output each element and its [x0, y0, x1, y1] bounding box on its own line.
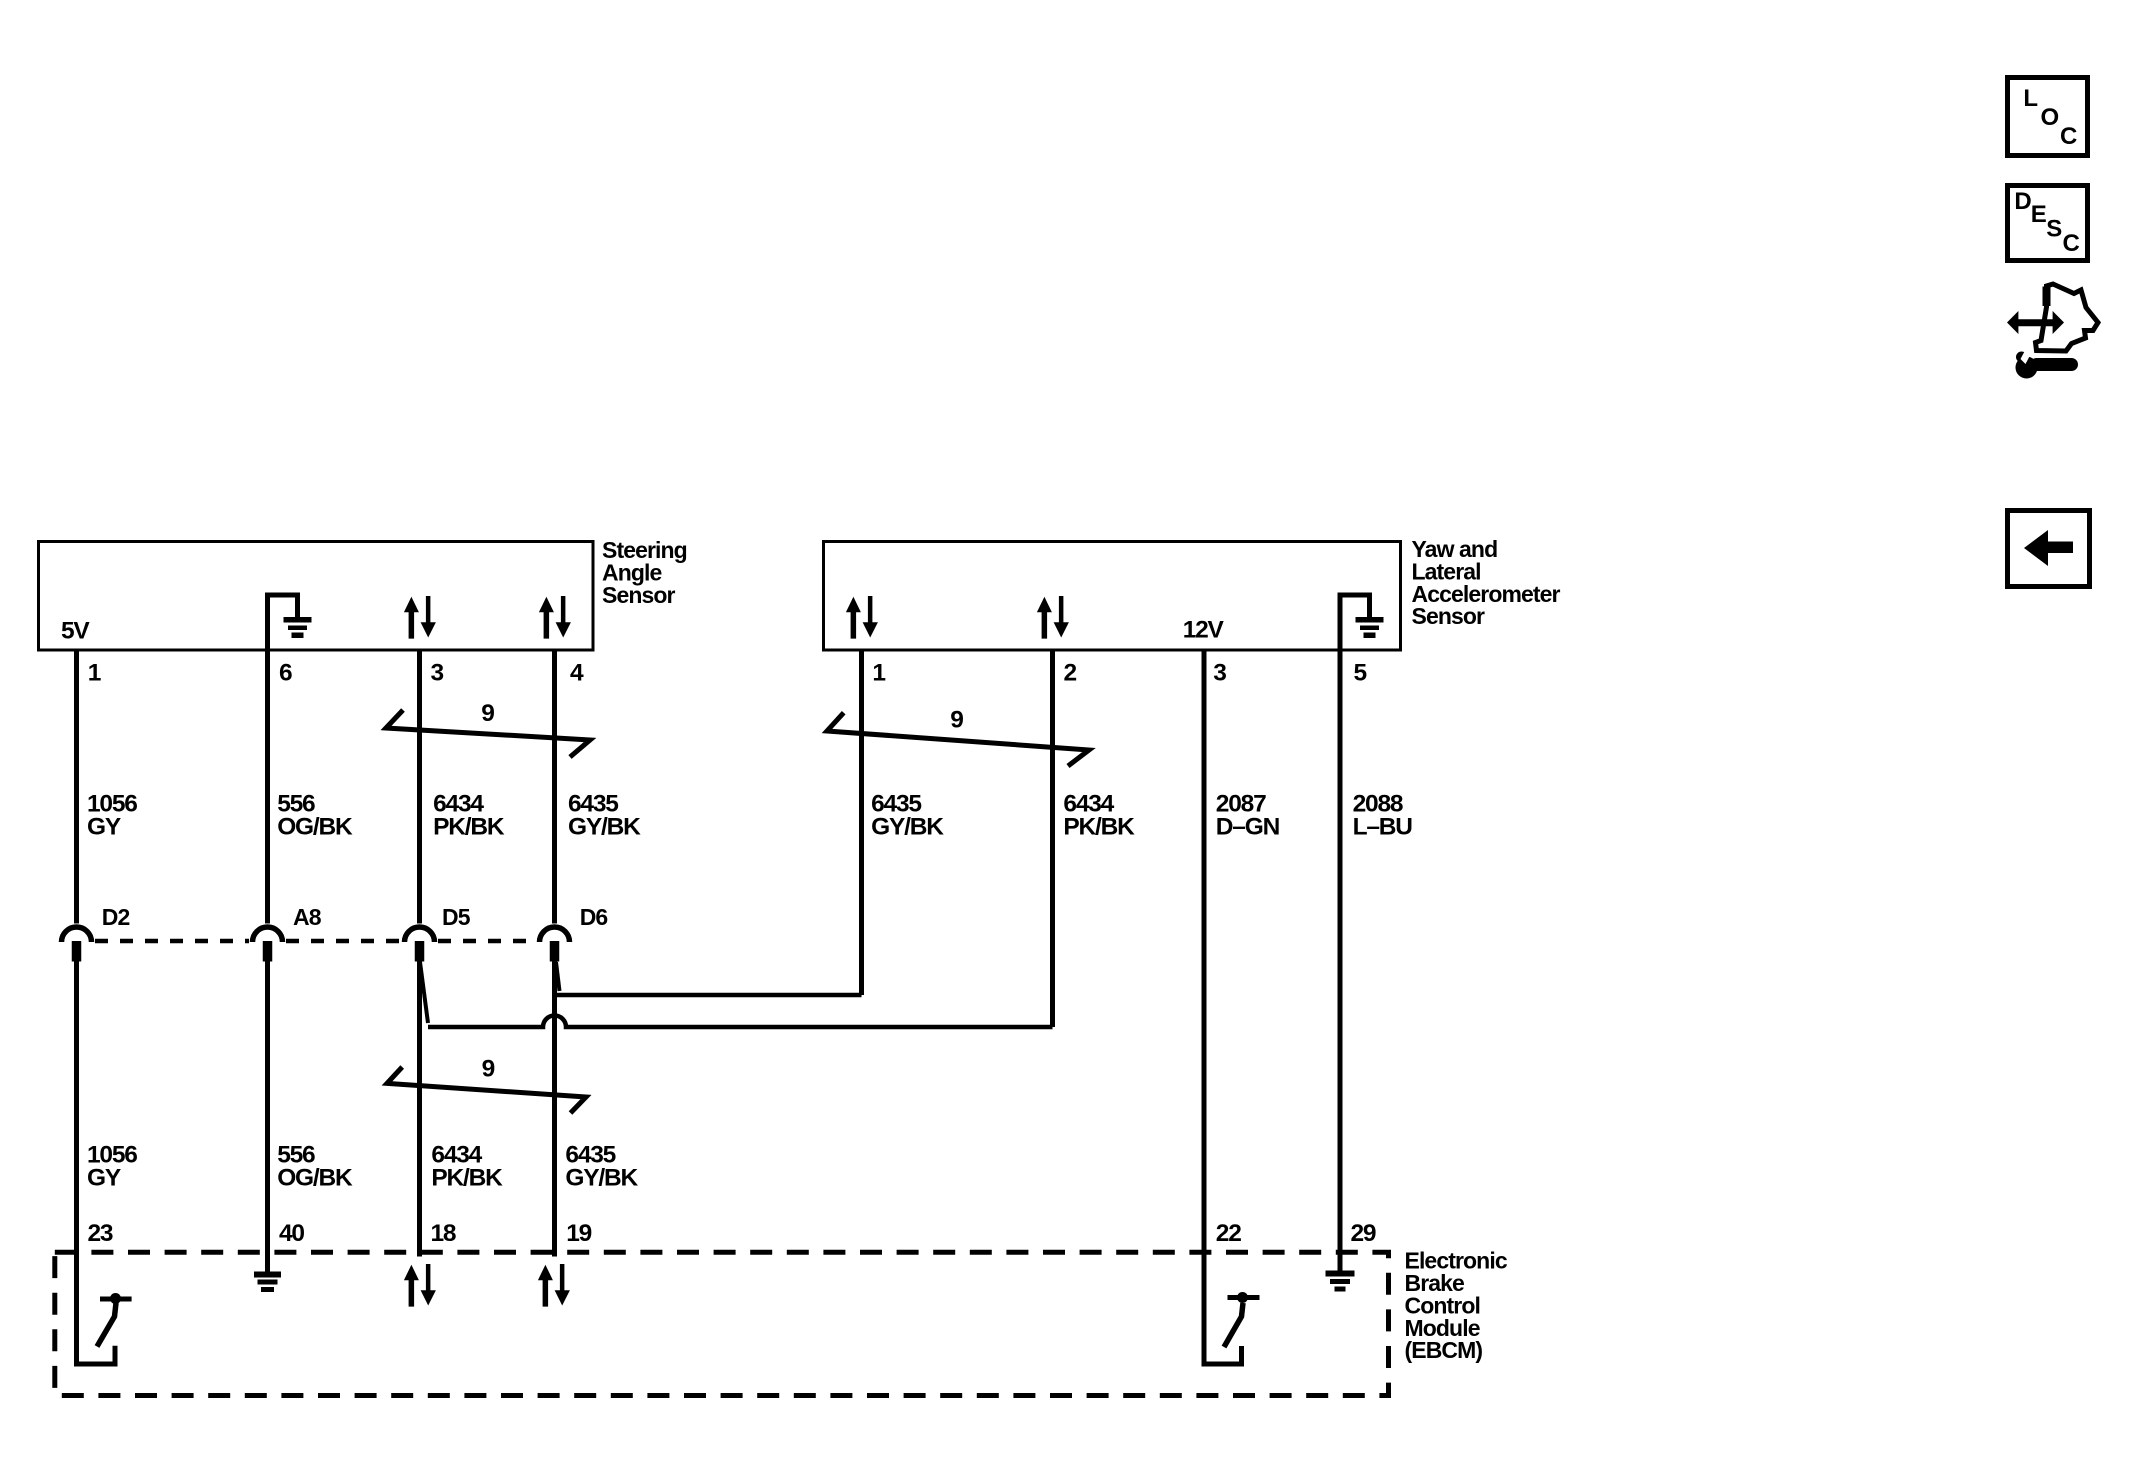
serial data arrows pin 4 steering box [539, 596, 571, 639]
wire 6434 PK/BK yaw pin2 [1050, 650, 1055, 1027]
switch SW1 at EBCM 23 [97, 1293, 132, 1347]
svg-text:D2: D2 [102, 904, 130, 930]
svg-text:40: 40 [279, 1220, 304, 1247]
switch SW2 at EBCM 22 [1224, 1292, 1260, 1347]
label 5V [61, 618, 90, 645]
svg-text:E: E [2031, 201, 2047, 228]
wire 1056 GY pin1 to connector D2 [74, 650, 79, 924]
label Steering Angle Sensor [602, 537, 687, 608]
svg-text:9: 9 [482, 1056, 495, 1083]
label D6 [580, 904, 608, 930]
svg-text:O: O [2041, 104, 2060, 131]
svg-text:OG/BK: OG/BK [277, 1165, 353, 1192]
label 9 for T3 [482, 1056, 495, 1083]
icon LOC box [2008, 78, 2088, 156]
svg-text:9: 9 [481, 700, 494, 727]
svg-text:5V: 5V [61, 618, 90, 645]
svg-text:5: 5 [1354, 660, 1367, 687]
steering angle sensor box U1 [39, 542, 594, 651]
connector terminal A8 [253, 927, 283, 961]
label 12V [1183, 617, 1225, 644]
connector terminal D5 [405, 927, 435, 961]
wire labels row 2 [87, 1141, 638, 1191]
svg-text:GY: GY [87, 814, 121, 841]
svg-text:23: 23 [88, 1220, 113, 1247]
svg-text:1: 1 [872, 660, 885, 687]
wire labels row 1 [87, 791, 1412, 841]
svg-text:Sensor: Sensor [602, 582, 676, 608]
svg-text:9: 9 [950, 707, 963, 734]
svg-text:D5: D5 [442, 904, 471, 930]
wire EBCM pin 23 internal [74, 1252, 118, 1367]
wire D6 to EBCM 19 [552, 962, 557, 1257]
icon back arrow box [2008, 511, 2090, 587]
label Electronic Brake Control Module (EBCM) [1405, 1248, 1508, 1364]
svg-text:L: L [2023, 85, 2038, 112]
serial data arrows pin 3 steering box [404, 596, 436, 639]
ground G1 inside steering box pin 6 [268, 595, 312, 650]
serial data arrows pin 1 yaw box [846, 596, 878, 639]
svg-text:29: 29 [1351, 1220, 1376, 1247]
label 9 for T1 [481, 700, 494, 727]
serial data arrows EBCM pin 19 [538, 1264, 570, 1307]
ground G2 inside yaw box pin 5 [1340, 595, 1384, 650]
wire EBCM pin 22 internal [1202, 1252, 1245, 1367]
connector terminal D6 [540, 927, 570, 961]
svg-text:12V: 12V [1183, 617, 1225, 644]
svg-text:22: 22 [1216, 1220, 1241, 1247]
svg-text:GY/BK: GY/BK [871, 814, 944, 841]
svg-text:D: D [2014, 188, 2031, 215]
svg-text:4: 4 [570, 660, 584, 687]
wire D6 branch to yaw pin 1 [556, 962, 862, 995]
icon DESC box [2008, 186, 2088, 261]
svg-text:19: 19 [566, 1220, 591, 1247]
svg-text:OG/BK: OG/BK [277, 814, 353, 841]
twisted pair symbol T2 yaw pins 1-2 [827, 713, 1089, 766]
wire 2088 L-BU yaw pin5 to EBCM 29 [1338, 650, 1343, 1252]
label 9 for T2 [950, 707, 963, 734]
ground G3 EBCM pin 40 [254, 1252, 281, 1292]
pin numbers row 1 [88, 660, 1367, 687]
svg-text:PK/BK: PK/BK [1063, 814, 1135, 841]
label Yaw and Lateral Accelerometer Sensor [1412, 536, 1561, 629]
icon jump with wrench [2007, 284, 2098, 379]
wire 6435 GY/BK yaw pin1 [859, 650, 864, 995]
svg-text:GY/BK: GY/BK [568, 814, 641, 841]
svg-text:C: C [2063, 230, 2080, 257]
wire 556 OG/BK pin6 to connector A8 [265, 650, 270, 924]
serial data arrows pin 2 yaw box [1037, 596, 1069, 639]
svg-text:L–BU: L–BU [1353, 814, 1413, 841]
electronic brake control module dashed box [55, 1252, 1389, 1395]
svg-text:3: 3 [1213, 660, 1226, 687]
svg-text:PK/BK: PK/BK [433, 814, 505, 841]
svg-text:(EBCM): (EBCM) [1405, 1337, 1483, 1363]
svg-text:C: C [2060, 123, 2077, 150]
svg-text:S: S [2046, 216, 2062, 243]
svg-text:2: 2 [1064, 660, 1077, 687]
yaw and lateral accelerometer sensor box U2 [824, 542, 1401, 651]
wire 6434 PK/BK pin3 to connector D5 [417, 650, 422, 924]
ground G4 EBCM pin 29 [1326, 1252, 1355, 1292]
wire D2 to EBCM 23 [74, 962, 79, 1253]
wire D5 to EBCM 18 [417, 962, 422, 1257]
svg-text:3: 3 [431, 660, 444, 687]
connector terminal D2 [62, 927, 92, 961]
label A8 [293, 904, 322, 930]
twisted pair symbol T1 pins 3-4 [386, 710, 590, 757]
svg-text:A8: A8 [293, 904, 322, 930]
svg-text:D6: D6 [580, 904, 608, 930]
svg-text:Sensor: Sensor [1412, 603, 1486, 629]
svg-text:1: 1 [88, 660, 101, 687]
svg-text:GY/BK: GY/BK [565, 1165, 638, 1192]
serial data arrows EBCM pin 18 [404, 1264, 436, 1307]
wire A8 to EBCM 40 [265, 962, 270, 1253]
connector C2 inline row dashed line [95, 939, 536, 944]
wire D5 branch to yaw pin 2 with hop over D6 wire [420, 962, 1053, 1027]
label D2 [102, 904, 130, 930]
svg-text:GY: GY [87, 1165, 121, 1192]
wire 2087 D-GN yaw pin3 to EBCM 22 [1202, 650, 1207, 1252]
svg-text:D–GN: D–GN [1216, 814, 1280, 841]
twisted pair symbol T3 above EBCM [387, 1067, 586, 1113]
svg-text:PK/BK: PK/BK [431, 1165, 503, 1192]
EBCM pin numbers [88, 1220, 1376, 1247]
svg-text:6: 6 [279, 660, 292, 687]
wire 6435 GY/BK pin4 to connector D6 [552, 650, 557, 924]
svg-text:18: 18 [431, 1220, 456, 1247]
label D5 [442, 904, 471, 930]
